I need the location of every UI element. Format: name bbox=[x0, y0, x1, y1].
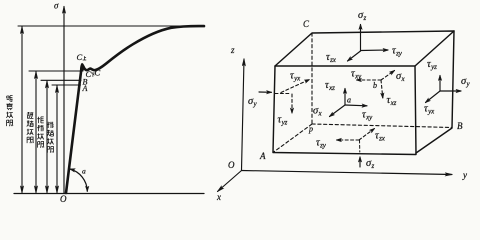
svg-text:A: A bbox=[82, 84, 88, 93]
svg-text:τzy: τzy bbox=[316, 138, 327, 150]
front face: sigma_x arrow bbox=[330, 105, 346, 117]
cube front face bbox=[273, 66, 416, 155]
top face: tau_zy arrow bbox=[361, 49, 389, 52]
sigma axis (vertical) bbox=[63, 7, 65, 194]
top face: sigma_z arrow bbox=[360, 25, 362, 52]
dimension arrow: elastic limit bbox=[46, 81, 48, 193]
elastic-limit line bbox=[41, 79, 81, 81]
back face: tau_xz arrow (dashed) bbox=[381, 80, 383, 98]
epsilon baseline (horizontal axis) bbox=[14, 193, 204, 195]
svg-text:σz: σz bbox=[358, 10, 366, 22]
left face: tau_yz arrow (dashed) bbox=[291, 94, 293, 113]
front face: tau_xz arrow bbox=[344, 89, 346, 106]
svg-text:τxz: τxz bbox=[325, 80, 335, 92]
hidden edge back-left vertical bbox=[311, 33, 313, 124]
dimension arrow: yield limit bbox=[35, 72, 37, 193]
svg-text:σx: σx bbox=[313, 106, 322, 118]
left face: dashed connector bbox=[275, 93, 291, 95]
top face: tau_zx arrow bbox=[348, 51, 361, 61]
right face: sigma_y arrow bbox=[440, 90, 461, 92]
svg-text:C: C bbox=[77, 52, 83, 62]
angle arc alpha bbox=[70, 169, 87, 191]
svg-text:τyx: τyx bbox=[424, 104, 435, 116]
z axis bbox=[242, 59, 245, 170]
svg-text:σz: σz bbox=[366, 158, 374, 170]
y axis bbox=[242, 171, 453, 175]
hidden edge bottom-left diagonal bbox=[273, 124, 312, 153]
stress-strain curve bbox=[66, 26, 204, 193]
svg-text:O: O bbox=[228, 160, 235, 170]
svg-text:τyx: τyx bbox=[290, 71, 301, 83]
yield-limit line bbox=[29, 70, 83, 72]
cube right face edges bbox=[416, 31, 454, 153]
svg-text:a: a bbox=[347, 96, 351, 105]
right face: tau_yx arrow bbox=[426, 91, 441, 103]
svg-text:σ: σ bbox=[54, 1, 59, 11]
svg-text:τxy: τxy bbox=[351, 69, 362, 81]
Chinese label column 4: proportional limit bbox=[47, 122, 54, 153]
svg-text:C: C bbox=[95, 68, 101, 78]
svg-text:τxy: τxy bbox=[362, 110, 373, 122]
svg-text:τyz: τyz bbox=[278, 115, 288, 127]
x axis bbox=[218, 171, 242, 192]
strength-limit top line bbox=[18, 25, 204, 27]
svg-text:y: y bbox=[462, 170, 467, 180]
svg-text:b: b bbox=[373, 81, 377, 90]
svg-text:O: O bbox=[60, 194, 67, 204]
svg-text:σy: σy bbox=[461, 76, 470, 88]
Chinese label column 2: yield limit bbox=[27, 112, 34, 143]
Chinese label column 3: elastic limit bbox=[37, 117, 44, 148]
svg-text:A: A bbox=[259, 151, 266, 161]
bottom face: tau_zy arrow (dashed) bbox=[337, 139, 360, 141]
svg-text:x: x bbox=[216, 192, 221, 202]
bottom face: dashed connector to sigma_z bbox=[359, 140, 361, 152]
bottom face: sigma_z arrow bbox=[359, 157, 361, 167]
back face: sigma_x arrow (dashed) bbox=[381, 71, 395, 81]
dimension arrow: proportional limit bbox=[56, 86, 58, 193]
left face: tau_yx arrow (dashed) bbox=[281, 80, 310, 93]
hidden edge bottom-back bbox=[312, 124, 452, 128]
dimension arrow: strength limit bbox=[21, 27, 23, 193]
svg-text:p: p bbox=[308, 125, 313, 134]
back face: tau_xy arrow (dashed) bbox=[357, 79, 382, 81]
right face: tau_yz arrow bbox=[439, 76, 441, 92]
bottom face: tau_zx arrow (dashed) bbox=[359, 129, 375, 141]
svg-text:a: a bbox=[82, 167, 86, 176]
cube top face edges bbox=[275, 31, 454, 66]
svg-text:B: B bbox=[457, 121, 463, 131]
front face: tau_xy arrow bbox=[345, 104, 367, 107]
svg-text:σx: σx bbox=[396, 71, 405, 83]
svg-text:τzy: τzy bbox=[392, 46, 403, 58]
yield spike blob bbox=[80, 64, 84, 71]
proportional-limit line bbox=[52, 84, 81, 86]
svg-text:τzx: τzx bbox=[375, 131, 386, 143]
svg-text:C: C bbox=[303, 19, 310, 29]
left face: sigma_y arrow bbox=[259, 91, 272, 93]
Chinese label column 1: strength limit bbox=[6, 96, 13, 127]
svg-text:z: z bbox=[230, 45, 235, 55]
svg-text:σy: σy bbox=[248, 96, 257, 108]
svg-text:τyz: τyz bbox=[427, 59, 437, 71]
svg-text:τxz: τxz bbox=[387, 95, 397, 107]
svg-text:τzx: τzx bbox=[326, 52, 337, 64]
